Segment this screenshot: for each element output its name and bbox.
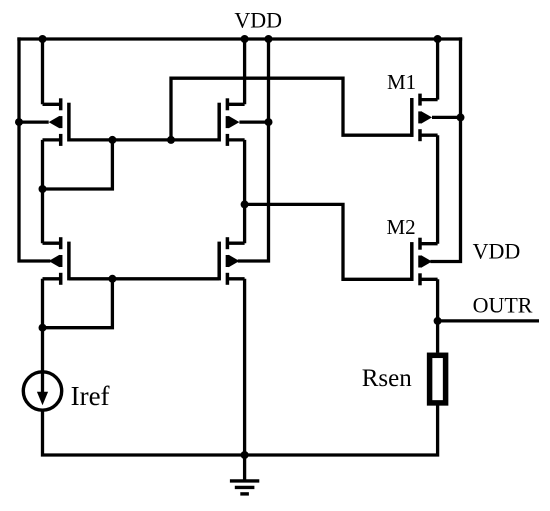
wire: VDD to M1 drain (436, 39, 439, 100)
wire: T4 source to ground (243, 279, 246, 480)
transistor M2 (412, 238, 438, 286)
junction: gate row 1/M1 gate wire (167, 136, 175, 144)
svg-text:M1: M1 (387, 70, 416, 94)
transistor upper-left PMOS (mirror) (43, 98, 69, 146)
wire: bottom ground rail (Iref to Rsen) (43, 406, 438, 455)
wire: T3 source to Iref (41, 279, 44, 394)
wire: OUTR output stub (438, 319, 539, 322)
svg-text:M2: M2 (387, 215, 416, 239)
transistor upper-middle PMOS (mirror) (219, 98, 244, 146)
transistor M1 (412, 94, 438, 142)
wire: T1 diode connection loop (43, 140, 113, 189)
junction: VDD/T2 drain (241, 35, 249, 43)
svg-text:OUTR: OUTR (473, 292, 533, 317)
junction: gate row 2/T3 diode loop (108, 275, 116, 283)
junction: VDD/middle bulk rail (265, 35, 273, 43)
wire: T1 bulk to left rail (19, 120, 49, 123)
wire: T1 source to T3 drain (41, 140, 44, 243)
junction: right rail/M1 bulk (457, 113, 465, 121)
current source Iref (23, 372, 61, 410)
junction: VDD/M1 drain (434, 35, 442, 43)
wire: M1 source to M2 drain (436, 135, 439, 244)
transistor lower-middle PMOS (mirror) (219, 237, 244, 285)
transistor lower-left PMOS (mirror) (43, 237, 69, 285)
junction: left rail/T1 bulk (15, 118, 23, 126)
wire: T2 bulk to middle bulk rail (239, 120, 268, 123)
wire: gate row 1 to M1 gate (171, 78, 412, 140)
wire: left rail from VDD to T3 bulk (19, 39, 49, 261)
junction: ground rail/T4 source (241, 451, 249, 459)
ground (230, 481, 259, 494)
wire: T3 diode connection loop (43, 279, 113, 328)
wire: gate row 1 (T1-T2 gates) (69, 138, 219, 141)
wire: T2 source to T4 drain (243, 140, 246, 243)
wire: T2 source node to M2 gate (245, 204, 412, 279)
wire: gate row 2 (T3-T4 gates) (69, 277, 219, 280)
junction: T1 source/diode loop (39, 185, 47, 193)
wire: middle bulk rail VDD to T4 bulk (239, 39, 268, 261)
svg-text:VDD: VDD (234, 7, 282, 32)
svg-text:Rsen: Rsen (362, 365, 413, 392)
junction: T3 source/diode loop (39, 324, 47, 332)
svg-text:VDD: VDD (473, 239, 521, 264)
svg-text:Iref: Iref (71, 381, 110, 411)
resistor Rsen (430, 355, 446, 403)
junction: VDD/T1 drain (39, 35, 47, 43)
junction: T2 source/M2 gate wire (241, 200, 249, 208)
wire: VDD to T2 drain (243, 39, 246, 104)
wire: right bulk rail from VDD to M2 bulk (432, 39, 461, 262)
junction: OUTR node (434, 317, 442, 325)
junction: gate row 1/T1 diode loop (108, 136, 116, 144)
wire: M1 bulk to right rail (432, 116, 461, 119)
wire: VDD to T1 drain (41, 39, 44, 104)
wire: M2 source to Rsen (OUTR node) (436, 279, 439, 352)
junction: middle bulk rail/T2 bulk (265, 118, 273, 126)
wire: VDD top rail (19, 37, 461, 40)
